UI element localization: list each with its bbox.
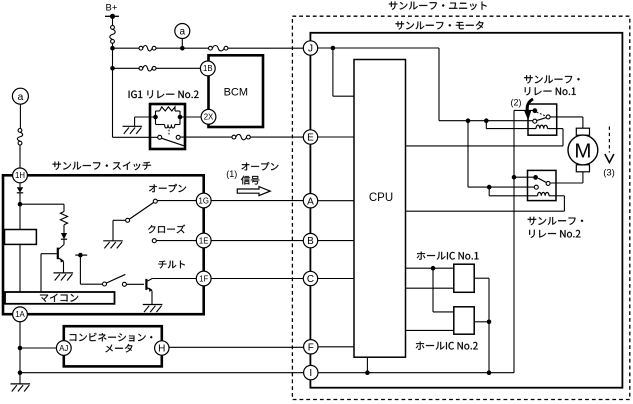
svg-text:F: F xyxy=(308,342,314,353)
pin AJ xyxy=(56,341,71,356)
wire 1A down xyxy=(18,322,23,375)
wire relay1 output to motor xyxy=(550,117,583,128)
label sunroof relay No.2 xyxy=(528,217,583,238)
wire A to CPU xyxy=(317,200,354,202)
wire CPU to hall1 pin2 xyxy=(406,287,454,289)
diode D (switch box) xyxy=(61,225,67,245)
wire coil to ground xyxy=(135,117,156,126)
wire CPU to hall2 pin2 xyxy=(406,329,454,331)
wire relay supply rail xyxy=(439,118,533,123)
ground (Q2 emitter) xyxy=(143,305,163,313)
svg-text:1A: 1A xyxy=(15,310,25,319)
wire CPU ground pin xyxy=(366,357,368,373)
relay IG1 No.2 box xyxy=(150,104,185,149)
component box (illumination) on 1H line xyxy=(5,230,37,245)
wire relay IG1 output to E with inline connector xyxy=(180,134,303,139)
svg-text:(1): (1) xyxy=(226,169,237,179)
wire ground line to I xyxy=(20,372,304,374)
wire relay2 coil feed xyxy=(489,187,537,196)
node B+ battery feed xyxy=(105,3,119,26)
svg-text:B: B xyxy=(307,236,314,247)
wire connector to 1H xyxy=(19,145,21,168)
pin 1H xyxy=(13,168,28,183)
pin B xyxy=(303,233,317,247)
wire relay2 NC from ground rail xyxy=(514,176,534,178)
svg-text:C: C xyxy=(307,274,314,285)
connector ref a (left) xyxy=(12,88,28,128)
wire 1H line to microcomputer xyxy=(19,205,21,292)
wire relay2 coil to CPU xyxy=(406,196,565,211)
relay No.2 contacts xyxy=(533,175,550,189)
wire J branch to CPU xyxy=(333,48,354,96)
svg-text:BCM: BCM xyxy=(224,87,248,99)
pin 1B xyxy=(200,61,215,76)
node tilt feed with stub xyxy=(75,253,102,284)
wire Q1 base from microcomputer xyxy=(41,254,57,292)
relay No.1 box xyxy=(528,104,557,135)
label open xyxy=(149,184,186,192)
pin I xyxy=(304,365,318,379)
pin 1G xyxy=(196,193,211,208)
label IG1 relay No.2 xyxy=(129,90,199,98)
sunroof motor box xyxy=(310,33,622,388)
wire B to 1E xyxy=(211,240,304,242)
wire J feed xyxy=(317,46,439,51)
pin 1F xyxy=(196,271,211,286)
svg-text:H: H xyxy=(158,344,165,355)
wire relay2 output to motor xyxy=(550,172,583,183)
sunroof unit dashed box xyxy=(292,16,629,399)
microcomputer box xyxy=(5,292,115,304)
wire ground rail to relay NC contacts xyxy=(512,110,533,372)
wire to 1B with inline connector xyxy=(113,66,201,71)
svg-text:1G: 1G xyxy=(198,196,208,205)
motor direction dashed arrow (3) xyxy=(603,127,615,179)
wire B+ down to relays xyxy=(438,48,440,121)
relay No.1 contacts xyxy=(533,108,551,123)
relay No.2 box xyxy=(528,170,557,200)
svg-text:B+: B+ xyxy=(106,3,118,14)
wire I ground bus xyxy=(318,370,514,375)
wire B+ vertical trunk xyxy=(110,46,115,137)
label (2) xyxy=(511,98,522,108)
transistor Q2 (tilt) xyxy=(146,279,152,305)
pin A xyxy=(303,194,317,208)
label sunroof unit xyxy=(389,2,487,11)
ground (IG1 relay coil) xyxy=(123,126,143,134)
pin J xyxy=(303,41,317,55)
pin F xyxy=(304,340,318,354)
wire open contact to 1G xyxy=(158,200,197,202)
wire hall supply branch xyxy=(433,268,454,312)
svg-text:CPU: CPU xyxy=(369,192,393,204)
resistor R (switch box) xyxy=(60,205,67,225)
svg-text:AJ: AJ xyxy=(59,344,68,353)
pin 2X xyxy=(201,109,216,124)
svg-text:a: a xyxy=(17,91,23,103)
wire relay1 coil to CPU xyxy=(406,129,564,146)
motor M xyxy=(568,128,598,172)
svg-text:a: a xyxy=(180,27,186,38)
ground (open/close switch) xyxy=(103,241,123,249)
sunroof switch box xyxy=(3,175,204,314)
label close xyxy=(148,225,185,234)
label sunroof motor xyxy=(396,21,484,30)
ground (Q1 emitter) xyxy=(54,273,74,281)
wire F to CPU xyxy=(318,346,354,348)
wire hall outputs to ground bus xyxy=(474,278,491,373)
svg-text:M: M xyxy=(574,139,591,162)
label hall IC No.2 xyxy=(416,342,478,350)
relay IG1 coil symbol (resistor+coil in parallel) xyxy=(153,107,182,128)
svg-text:(2): (2) xyxy=(511,98,522,108)
switch close contact xyxy=(152,239,196,243)
wire CPU to hall1 pin1 xyxy=(406,266,454,271)
relay No.2 coil xyxy=(538,192,557,195)
inline connector on a-1H wire xyxy=(17,129,22,146)
svg-text:A: A xyxy=(307,196,314,207)
svg-text:2X: 2X xyxy=(204,113,214,122)
wire B to CPU xyxy=(317,240,354,242)
wire relay1 coil feed xyxy=(486,121,536,129)
CPU box xyxy=(354,60,406,358)
wire top feed to J with inline connectors xyxy=(113,46,304,51)
label sunroof switch xyxy=(53,162,151,171)
relay actuation arrow (2) xyxy=(524,99,533,120)
label sunroof relay No.1 xyxy=(524,75,579,95)
open signal block arrow xyxy=(237,187,270,196)
svg-text:1H: 1H xyxy=(15,171,25,180)
transistor Q1 xyxy=(58,245,64,273)
connector ref a (top) xyxy=(175,24,190,47)
wire E to CPU xyxy=(317,136,354,138)
hall IC No.2 box xyxy=(454,307,474,334)
label (1) open signal xyxy=(226,162,278,184)
switch tilt contacts + blade xyxy=(103,274,145,286)
hall IC No.1 box xyxy=(454,264,474,292)
svg-text:1B: 1B xyxy=(203,64,213,73)
relay IG1 contact (open) xyxy=(113,130,185,146)
wire H to F xyxy=(169,346,304,348)
svg-text:J: J xyxy=(308,44,313,55)
svg-text:(3): (3) xyxy=(603,168,615,179)
svg-text:I: I xyxy=(309,368,312,379)
svg-text:1E: 1E xyxy=(199,236,209,245)
pin E xyxy=(303,130,317,144)
wire 1A to AJ xyxy=(20,347,57,349)
pin H xyxy=(155,341,169,355)
wire coil to 2X xyxy=(180,116,201,118)
pin 1A xyxy=(13,307,28,322)
wire C to 1F xyxy=(211,278,304,280)
ground (body, bottom left) xyxy=(11,373,31,392)
pin 1E xyxy=(196,233,211,248)
zener diode below 1H xyxy=(17,183,23,205)
svg-text:1F: 1F xyxy=(199,274,208,283)
wire supply to relay2 NO xyxy=(468,121,534,190)
wire Q2 collector to 1F xyxy=(152,278,196,280)
wire C to CPU xyxy=(317,278,354,280)
label hall IC No.1 xyxy=(417,252,479,260)
label tilt xyxy=(158,261,185,269)
pin C xyxy=(303,271,317,285)
combination meter box xyxy=(64,326,162,366)
BCM box xyxy=(209,55,264,127)
fuse F1 (circuit breaker squiggle) on B+ line xyxy=(110,26,115,49)
wire A to 1G xyxy=(211,200,304,202)
relay No.1 coil xyxy=(536,125,557,128)
node switch common junction xyxy=(18,202,64,207)
switch open contact + blade xyxy=(113,199,157,241)
svg-text:E: E xyxy=(307,133,314,144)
